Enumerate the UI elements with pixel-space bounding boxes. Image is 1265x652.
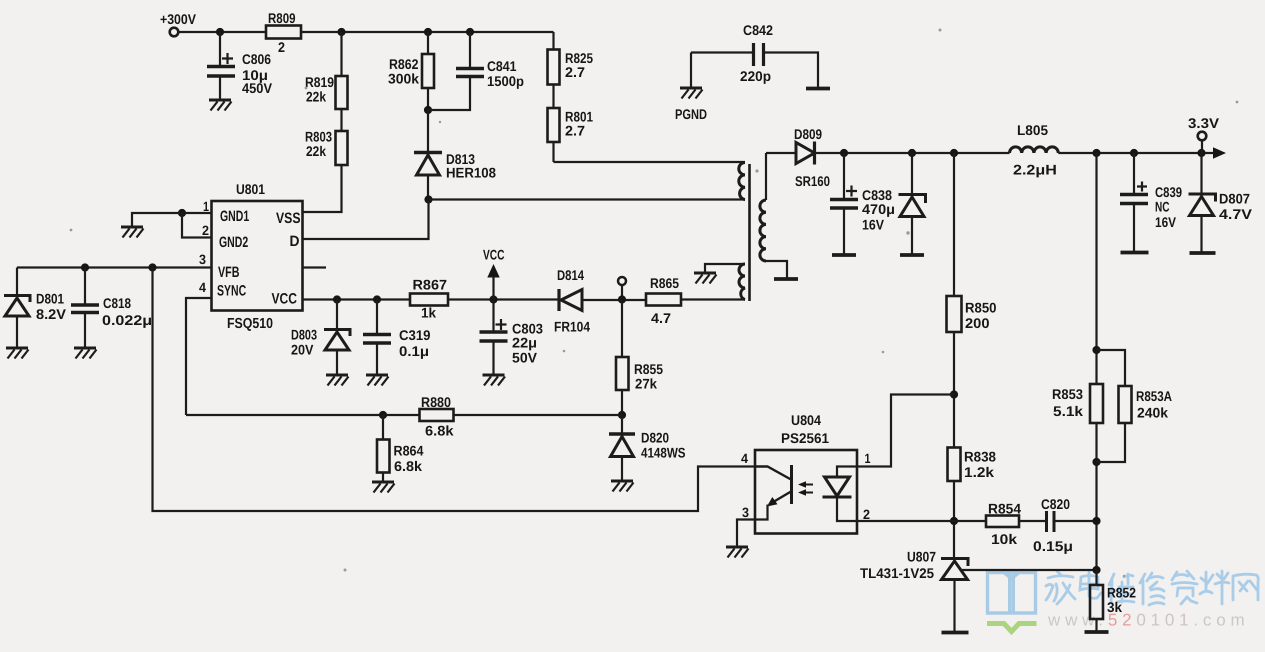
VCC symbol arrow [487,264,499,278]
ground under D803 [326,375,349,386]
svg-text:22k: 22k [306,143,326,159]
terminal +300V input [170,28,179,37]
svg-text:D809: D809 [794,126,822,142]
svg-text:300k: 300k [388,71,419,87]
zener D801 8.2V [16,268,18,296]
svg-text:GND2: GND2 [219,234,248,251]
wire R880 row [186,414,420,416]
node R853/R853A split [1092,346,1100,354]
resistor R864 [382,415,384,440]
diode D809 SR160 [796,143,815,164]
watermark book ribbon [987,624,1037,632]
svg-text:2.2μH: 2.2μH [1013,162,1057,178]
node pin2 row [950,517,958,525]
svg-text:R853: R853 [1052,386,1083,402]
transformer aux winding [739,264,745,300]
arrow output 3.3V [1213,147,1226,158]
wire R803 to U801 VSS [303,165,342,212]
wire secondary bottom [766,261,787,279]
svg-text:6.8k: 6.8k [394,458,422,474]
svg-text:3: 3 [742,505,749,520]
ground under R864 [372,482,395,493]
node R853 bottom [1092,458,1100,466]
node junction at C806 top [216,28,224,36]
shunt regulator U807 TL431 [941,559,968,567]
capacitor C820 [1047,511,1055,532]
wire R809 to node [301,31,554,33]
wire R865 to aux winding [681,298,745,300]
svg-text:1500p: 1500p [487,73,524,89]
pin NC stub [303,266,327,268]
transformer secondary winding [765,153,767,200]
zener diode (unmarked) [911,153,913,194]
svg-text:FSQ510: FSQ510 [227,316,273,332]
svg-text:D801: D801 [36,291,64,307]
node TL431 ref / R852 [1092,566,1100,574]
svg-text:200: 200 [965,315,990,331]
node VFB / feedback [148,263,156,271]
svg-text:C841: C841 [487,58,517,74]
svg-text:C842: C842 [743,22,773,38]
svg-text:1: 1 [865,451,871,466]
op-amp U801 FSQ510 body [212,201,303,311]
terminal bar under D807 [1190,251,1216,255]
svg-text:R850: R850 [965,300,997,316]
inductor L805 [1010,147,1059,153]
svg-text:VSS: VSS [276,210,300,227]
node VFB / C818 [81,263,89,271]
ground under C319 [366,375,389,386]
terminal bar under TL431 [942,631,969,635]
svg-text:0.1μ: 0.1μ [399,343,429,359]
svg-text:3k: 3k [1107,599,1122,615]
node R864 top [379,411,387,419]
scan speckles [70,29,1239,578]
wire R801 to primary [552,142,554,162]
node R855/R880/D820 [618,411,626,419]
ground aux winding [694,273,717,284]
transformer core [748,164,751,301]
resistor R853A branch [1097,350,1126,386]
wire feedback loop left [153,268,756,512]
opto pin 3 wire [737,520,755,547]
svg-text:C820: C820 [1041,496,1070,512]
ground U801 GND [121,227,144,238]
svg-text:20V: 20V [291,342,314,358]
wire TL431 ref [962,569,1097,571]
diode D813 HER108 [427,110,429,153]
wire opto pin1 riser [857,395,954,467]
node at C841 top [466,28,474,36]
capacitor C839 [1133,153,1135,194]
pin 4 SYNC wire [186,298,212,415]
svg-text:R838: R838 [964,449,996,465]
svg-text:D803: D803 [291,327,317,343]
wire secondary to D809 [766,152,796,154]
svg-text:240k: 240k [1137,405,1168,421]
svg-text:TL431-1V25: TL431-1V25 [860,565,934,581]
node D814/R865/R855 [618,295,626,303]
capacitor C838 [843,153,845,199]
svg-text:C806: C806 [242,51,271,67]
resistor R853 [1090,384,1103,423]
resistor R838 [948,448,961,482]
ground opto pin3 [726,547,749,558]
svg-text:1k: 1k [421,305,436,321]
terminal bar under zener [900,253,924,257]
node output [1197,149,1205,157]
node at R819 top [337,28,345,36]
node VCC/C319 [373,295,381,303]
svg-text:450V: 450V [242,80,273,96]
svg-text:U807: U807 [907,549,936,565]
zener D807 4.7V [1200,153,1202,194]
node VCC rail [489,295,497,303]
svg-text:C319: C319 [399,327,431,343]
svg-text:PGND: PGND [675,106,707,122]
resistor R819 [340,32,342,76]
terminal bar under C839 [1121,251,1149,255]
diode D814 FR104 [557,289,560,311]
svg-text:1: 1 [203,199,209,214]
svg-text:4.7: 4.7 [651,310,671,326]
svg-text:FR104: FR104 [554,319,590,335]
svg-text:10k: 10k [991,531,1017,547]
pin 1 GND1 wire [182,212,212,214]
svg-text:2: 2 [863,507,870,522]
node R850 top [950,149,958,157]
terminal 3.3V [1198,132,1207,141]
svg-text:27k: 27k [635,376,657,392]
wire R819-R803 [340,109,342,131]
node pin1-pin2 tie [178,209,186,217]
opto phototransistor [790,465,793,504]
resistor R801 [548,108,560,142]
svg-text:R865: R865 [650,275,679,291]
svg-text:4: 4 [741,451,748,466]
pin 2 GND2 wire [182,213,212,238]
svg-text:SYNC: SYNC [217,283,246,300]
svg-text:R853A: R853A [1136,388,1172,404]
svg-text:1.2k: 1.2k [964,464,994,480]
ground under D801 [6,348,29,359]
svg-text:GND1: GND1 [220,208,249,225]
svg-text:www.520101.com: www.520101.com [1047,611,1249,630]
resistor R862 [427,32,429,54]
capacitor C806 [219,32,221,65]
watermark chinese characters [1046,571,1258,605]
resistor R880 [420,409,454,421]
wire R825-R801 [552,85,554,109]
resistor R854 [986,516,1019,528]
svg-text:R867: R867 [413,277,448,293]
svg-text:NC: NC [1155,199,1170,215]
WATERMARK (drawn first, circuit on top) [987,571,1258,632]
node R862 bottom [424,106,432,114]
svg-text:R880: R880 [421,394,451,410]
capacitor C319 [376,300,378,335]
watermark book logo [988,573,1036,614]
opto U804 PS2561 body [755,450,857,534]
node R850/R838/opto [950,390,958,398]
svg-text:D: D [290,233,300,250]
wire rail after L805 [1058,152,1214,154]
svg-text:R854: R854 [988,501,1021,517]
wire R853 column [1095,153,1097,384]
node D813 anode / drain [424,195,432,203]
svg-text:8.2V: 8.2V [36,306,67,322]
transformer primary winding [739,163,745,200]
resistor R852 [1095,570,1097,585]
svg-text:D807: D807 [1219,191,1250,207]
resistor R867 [410,294,448,306]
ground under D820 [611,481,634,492]
capacitor C818 [84,268,86,305]
svg-text:3.3V: 3.3V [1188,115,1220,131]
svg-text:2.7: 2.7 [565,64,585,80]
capacitor C841 [469,32,471,68]
svg-text:HER108: HER108 [446,165,496,181]
svg-text:2: 2 [278,39,285,55]
svg-text:4: 4 [199,280,206,295]
svg-text:22μ: 22μ [512,335,537,351]
svg-text:VCC: VCC [272,291,298,308]
svg-text:5.1k: 5.1k [1053,403,1083,419]
svg-text:U801: U801 [236,181,265,197]
svg-text:22k: 22k [306,89,326,105]
zener D803 20V [336,300,338,330]
svg-text:D814: D814 [557,267,584,283]
resistor R855 [621,300,623,358]
ground under C803 [483,375,506,386]
node C820 right [1092,517,1100,525]
svg-text:VCC: VCC [483,247,504,263]
wire GND1 to ground [132,213,182,226]
capacitor C803 [492,300,494,332]
svg-text:220p: 220p [740,68,771,84]
svg-text:SR160: SR160 [795,173,830,189]
resistor R803 [336,131,348,165]
svg-text:16V: 16V [862,217,885,233]
svg-text:50V: 50V [512,350,538,366]
terminal test point [618,277,626,285]
svg-text:+300V: +300V [160,11,197,27]
svg-text:0.15μ: 0.15μ [1033,538,1073,554]
svg-text:4.7V: 4.7V [1219,206,1253,222]
PGND ground [690,53,692,88]
node zener top [908,149,916,157]
opto LED [837,467,857,478]
transformer T801 primary top wire [554,161,746,163]
svg-text:VFB: VFB [218,264,240,281]
resistor R865 [646,294,681,306]
svg-text:R809: R809 [268,10,296,26]
svg-text:2.7: 2.7 [565,123,585,139]
wire U801 D pin [303,200,429,240]
diode D820 4148WS [621,415,623,434]
wire opto pin2 row [857,520,986,522]
node C839 top [1130,149,1138,157]
wire input to R809 [179,31,267,33]
node VCC/D803 [333,295,341,303]
svg-text:3: 3 [199,252,206,267]
resistor R809 [266,26,301,39]
pin VCC wire [303,298,411,300]
terminal bar under C838 [832,253,856,257]
node C838 top [840,149,848,157]
svg-text:PS2561: PS2561 [781,430,829,446]
terminal bar under R852 [1085,630,1109,634]
ground under C818 [74,348,97,359]
resistor R850 [953,153,955,296]
node at R862 top [424,28,432,36]
svg-text:2: 2 [202,223,209,238]
svg-text:R864: R864 [394,443,424,459]
svg-text:U804: U804 [791,412,821,428]
resistor R825 [552,32,554,50]
svg-text:470μ: 470μ [862,201,895,217]
terminal bar secondary return [774,277,798,281]
capacitor C842 [691,51,753,53]
pin 3 VFB wire [17,266,212,268]
node R853 column top [1092,149,1100,157]
svg-text:0.022μ: 0.022μ [102,312,152,328]
svg-text:16V: 16V [1155,214,1177,230]
wire aux top to ground [705,264,745,272]
svg-text:6.8k: 6.8k [425,423,454,439]
wire output rail [815,152,1010,154]
terminal bar C842 right [806,87,830,91]
wire primary bottom [429,198,746,200]
svg-text:4148WS: 4148WS [641,445,686,461]
svg-text:L805: L805 [1017,122,1048,138]
svg-text:C818: C818 [103,295,131,311]
svg-text:D820: D820 [641,430,669,446]
ground under C806 [209,100,232,111]
opto light arrows [803,485,813,493]
wire R867 to D814 [448,298,559,300]
